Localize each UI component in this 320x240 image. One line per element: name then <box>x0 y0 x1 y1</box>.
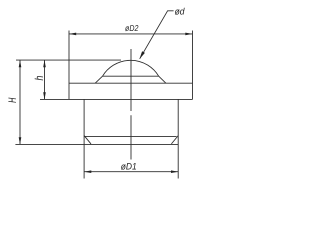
dimension H line <box>19 60 21 144</box>
leader line for d <box>140 11 174 59</box>
flange right edge + D2 extension line <box>192 31 194 100</box>
svg-text:øD1: øD1 <box>121 160 137 171</box>
arrow d leader tip <box>140 51 145 59</box>
arrow h bottom <box>43 92 46 99</box>
rim chamfer left <box>95 76 102 83</box>
arrow D2 left <box>69 33 76 36</box>
crimp diagonal left <box>84 136 91 144</box>
arrow D2 right <box>185 33 192 36</box>
centerline <box>130 49 132 111</box>
dimension D2 line <box>69 33 193 35</box>
svg-text:H: H <box>7 98 19 103</box>
arrow H top <box>19 60 22 67</box>
arrow h top <box>43 60 46 67</box>
crimp shoulder line <box>85 135 177 137</box>
flange left edge + D2 extension line <box>68 31 70 100</box>
dimension h line <box>44 60 46 99</box>
ball dome arc <box>103 60 159 76</box>
rim chord line <box>103 75 159 77</box>
flange top line <box>69 82 193 84</box>
body right edge + D1 extension line <box>177 99 179 178</box>
body left edge + D1 extension line <box>83 99 85 178</box>
svg-text:øD2: øD2 <box>125 23 139 33</box>
ball top extension line <box>16 59 121 61</box>
arrow H bottom <box>19 137 22 144</box>
h bottom extension line <box>40 98 69 100</box>
svg-text:h: h <box>34 76 46 81</box>
rim chamfer right <box>159 76 166 83</box>
arrow D1 left <box>84 170 91 173</box>
crimp diagonal right <box>171 136 178 144</box>
dimension D1 line <box>84 171 178 173</box>
flange bottom line <box>69 98 193 100</box>
bottom line + H extension line <box>15 143 178 145</box>
svg-text:ød: ød <box>175 6 186 17</box>
arrow D1 right <box>171 170 178 173</box>
